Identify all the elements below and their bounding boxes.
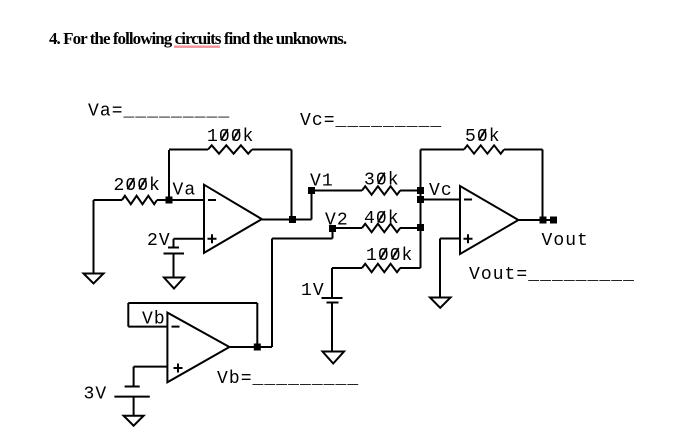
- svg-text:2V: 2V: [147, 231, 171, 251]
- svg-text:4. For the following circuits: 4. For the following circuits find the u…: [49, 29, 347, 48]
- wire: U1 noninverting input: [174, 238, 205, 240]
- op-amp U3 triangle: [167, 313, 229, 383]
- svg-text:1V: 1V: [301, 281, 325, 301]
- battery 2V long plate: [164, 253, 185, 255]
- wire: ground stub left of 200k: [94, 199, 123, 201]
- node V1 junction square: [308, 187, 315, 194]
- svg-text:30k: 30k: [364, 171, 400, 191]
- wire: U3 feedback riser from output node: [256, 303, 258, 347]
- svg-text:100k: 100k: [366, 246, 413, 266]
- op-amp U1 triangle: [204, 185, 262, 253]
- wire: V1 to 30k: [312, 190, 363, 192]
- node Va junction square: [166, 197, 173, 204]
- wire: riser output to node V1: [311, 191, 313, 220]
- U3 plus sign: [174, 364, 183, 373]
- wire: 50k top left segment: [421, 149, 465, 151]
- wire: 30k to Vc rail: [400, 190, 421, 192]
- U1 minus sign: [208, 199, 216, 201]
- wire: 3V battery top lead: [133, 367, 135, 387]
- wire: 2V battery top lead: [173, 239, 175, 248]
- wire: U1 output: [262, 219, 312, 221]
- wire: U2 plus input down to ground: [439, 239, 441, 298]
- svg-text:Vb: Vb: [142, 310, 166, 330]
- svg-text:50k: 50k: [465, 127, 501, 147]
- battery 2V short plate: [168, 247, 179, 249]
- wire: U3 noninverting input: [134, 366, 168, 368]
- wire: left vertical to ground: [93, 200, 95, 273]
- wire: 2V battery to ground: [173, 254, 175, 278]
- resistor R 200k zigzag: [122, 196, 157, 204]
- red spellcheck underline under "circuits": [174, 46, 220, 48]
- wire: U2 noninverting input: [440, 238, 460, 240]
- svg-text:Vout=_________: Vout=_________: [469, 265, 635, 285]
- svg-text:Vc: Vc: [429, 181, 453, 201]
- ground (under 1V): [323, 352, 345, 364]
- U2 minus sign: [464, 199, 472, 201]
- ground (under 2V): [164, 278, 184, 289]
- wire: 50k top right segment: [504, 149, 543, 151]
- wire: V2 to 40k: [333, 227, 363, 229]
- wire: 1V branch horizontal: [332, 267, 362, 269]
- node U2 output junction square: [540, 217, 547, 224]
- resistor R 100k feedback zigzag: [208, 145, 252, 153]
- node U3 output junction square: [254, 344, 261, 351]
- wire: U3 feedback left riser: [127, 303, 129, 327]
- U1 plus sign: [208, 234, 217, 243]
- svg-text:100k: 100k: [207, 127, 254, 147]
- ground (under 3V): [124, 416, 144, 426]
- wire: 100k to Vc rail bottom: [400, 267, 421, 269]
- wire: 1V battery top lead: [331, 268, 333, 298]
- wire: 40k to Vc rail: [400, 227, 421, 229]
- svg-text:V1: V1: [310, 172, 334, 192]
- wire: U3 output: [229, 346, 272, 348]
- wire: Vc rail vertical: [420, 150, 422, 269]
- node V2 junction square: [329, 225, 336, 232]
- slashed-zero strokes for resistor value labels: [127, 129, 485, 259]
- ground (left input): [84, 274, 104, 284]
- svg-text:V2: V2: [325, 211, 349, 231]
- node 30k/rail junction square: [417, 187, 424, 194]
- svg-text:Vb=_________: Vb=_________: [217, 369, 359, 389]
- node Vc/rail junction square: [417, 196, 424, 203]
- svg-text:3V: 3V: [84, 385, 108, 405]
- battery 3V long plate: [114, 396, 149, 398]
- svg-text:Va=_________: Va=_________: [88, 102, 230, 122]
- wire: U2 feedback right riser: [542, 150, 544, 221]
- svg-text:Vc=_________: Vc=_________: [300, 111, 442, 131]
- node 40k/rail junction square: [417, 224, 424, 231]
- U2 plus sign: [464, 234, 473, 243]
- resistor R 40k zigzag: [362, 224, 400, 232]
- node Vout terminal square: [550, 217, 557, 224]
- U3 minus sign: [172, 326, 180, 328]
- resistor R 50k zigzag: [464, 145, 504, 153]
- wire: 200k to U1 inverting input: [157, 199, 204, 201]
- svg-text:200k: 200k: [114, 176, 161, 196]
- wire: U3 output riser up to V2 path: [271, 239, 273, 348]
- node U1 output junction square: [289, 216, 296, 223]
- wire: 1V battery to ground: [331, 303, 333, 352]
- svg-text:Vout: Vout: [542, 231, 589, 251]
- svg-text:40k: 40k: [364, 209, 400, 229]
- wire: feedback right riser: [291, 150, 293, 220]
- wire: U3 inverting input: [128, 326, 167, 328]
- op-amp U3 feedback top wire: [128, 302, 257, 304]
- resistor R 100k (bottom) zigzag: [362, 264, 400, 272]
- resistor R 30k zigzag: [362, 186, 400, 194]
- battery 1V long plate: [322, 297, 343, 299]
- wire: feedback left riser: [168, 150, 170, 200]
- battery 3V short plate: [125, 386, 140, 388]
- wire: feedback top right segment: [252, 149, 292, 151]
- wire: horizontal link to V2: [272, 238, 333, 240]
- wire: U2 output: [518, 219, 551, 221]
- ground (U2 plus): [430, 298, 451, 308]
- svg-text:Va: Va: [173, 181, 197, 201]
- wire: Vc to U2 inverting input: [421, 199, 461, 201]
- wire: V2 node jog up: [332, 229, 334, 239]
- battery 1V short plate: [327, 302, 339, 304]
- wire: feedback top left segment: [169, 149, 208, 151]
- op-amp U2 triangle: [460, 186, 518, 254]
- wire: 3V battery to ground: [133, 397, 135, 416]
